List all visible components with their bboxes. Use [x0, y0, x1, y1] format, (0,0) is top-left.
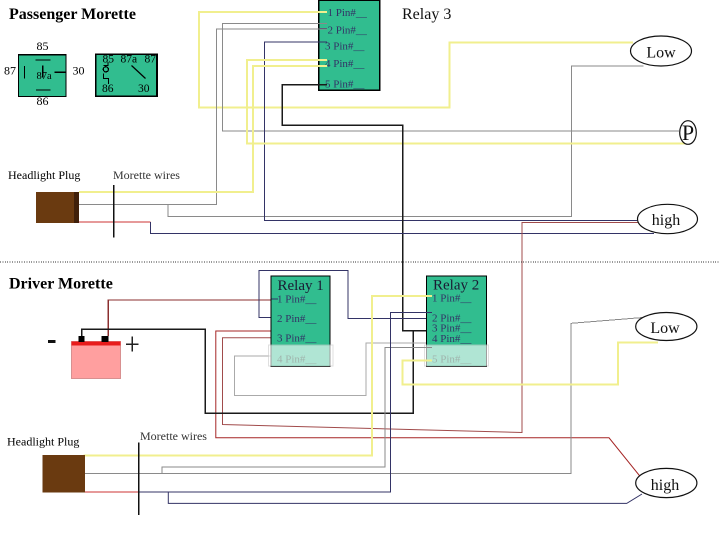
svg-text:30: 30: [138, 83, 150, 95]
wire red plug2: [84, 491, 138, 493]
label Headlight Plug bottom: [7, 435, 79, 449]
wire dark red battery to relay1 pin1: [108, 300, 276, 336]
label Morette wires bottom: [140, 429, 207, 443]
wire yellow relay3 pin1 to Low: [199, 12, 633, 108]
svg-text:85: 85: [37, 39, 49, 53]
relay pinout icon K2: [96, 54, 157, 97]
wire gray relay3 pin2 to P: [223, 24, 680, 132]
title Driver Morette: [9, 276, 113, 293]
svg-text:86: 86: [37, 94, 49, 108]
wire navy relay3 pin3 to high: [265, 42, 638, 221]
svg-text:1 Pin#__: 1 Pin#__: [432, 293, 472, 305]
relay U3 box: [319, 0, 380, 91]
label Morette wires top: [113, 168, 180, 182]
morette tick line top: [113, 185, 115, 238]
svg-text:2 Pin#__: 2 Pin#__: [277, 313, 317, 325]
relay U2 box: [427, 276, 487, 366]
svg-text:3 Pin#__: 3 Pin#__: [277, 333, 317, 345]
wire navy relay1 pin2 to relay2 pin2: [259, 271, 432, 319]
wire red plug1: [78, 221, 151, 223]
svg-text:87: 87: [4, 64, 16, 78]
wire navy junction to high bottom: [168, 492, 642, 504]
wire red relay1 pin3 to high bottom: [216, 331, 643, 480]
svg-text:86: 86: [102, 83, 114, 95]
ellipse Low top: [631, 36, 692, 66]
wire gray relay3 pin2 to headlight plug: [79, 29, 327, 205]
svg-text:Driver Morette: Driver Morette: [9, 276, 113, 293]
relay U1 faded bottom overlay: [269, 345, 334, 366]
label Relay 3: [402, 6, 451, 23]
wire silver relay1 pin4 to relay2 pin4: [235, 343, 432, 396]
morette tick line bottom: [138, 443, 140, 516]
wire dark red relay1 pin3 to high top: [223, 223, 639, 433]
wire gray plug2 to Low bottom: [85, 318, 643, 474]
svg-text:Relay 2: Relay 2: [433, 278, 479, 294]
svg-text:4 Pin#__: 4 Pin#__: [325, 58, 365, 70]
svg-text:P: P: [682, 120, 694, 145]
label Headlight Plug top: [8, 168, 80, 182]
wire yellow relay2 pin5 to Low bottom: [403, 342, 658, 384]
svg-text:Low: Low: [646, 45, 676, 62]
wire black relay3 pin5 to relay2 pin3: [282, 85, 432, 331]
svg-text:4 Pin#__: 4 Pin#__: [432, 333, 472, 345]
wire yellow plug2 to relay2 pin1: [84, 296, 433, 456]
svg-text:Headlight Plug: Headlight Plug: [8, 168, 80, 182]
svg-text:3 Pin#__: 3 Pin#__: [325, 41, 365, 53]
svg-text:87a: 87a: [37, 71, 53, 82]
wire yellow relay3 pin4 under P: [247, 60, 689, 144]
svg-text:Passenger Morette: Passenger Morette: [9, 6, 136, 23]
svg-text:87: 87: [145, 54, 157, 66]
svg-text:Headlight Plug: Headlight Plug: [7, 435, 79, 449]
battery BT1: [48, 336, 138, 378]
wire navy plug2 to relay2 pin2: [139, 313, 433, 492]
headlight plug 1: [36, 192, 79, 223]
svg-text:5 Pin#__: 5 Pin#__: [432, 354, 472, 366]
svg-text:Morette wires: Morette wires: [113, 168, 180, 182]
wire yellow relay3 pin4 to plug: [79, 66, 327, 192]
svg-text:Relay 1: Relay 1: [278, 278, 324, 294]
wire black battery to relay2 pin3 riser: [82, 329, 414, 413]
headlight plug 2: [43, 455, 86, 493]
svg-text:2 Pin#__: 2 Pin#__: [328, 25, 368, 37]
wire gray junction to Low bottom: [168, 66, 644, 217]
svg-text:high: high: [652, 212, 680, 229]
svg-text:1 Pin#__: 1 Pin#__: [328, 7, 368, 19]
node P: [680, 120, 697, 145]
ellipse high top: [638, 204, 698, 233]
svg-text:Relay 3: Relay 3: [402, 6, 451, 23]
title Passenger Morette: [9, 6, 136, 23]
svg-text:1 Pin#__: 1 Pin#__: [277, 294, 317, 306]
relay U2 faded bottom overlay: [424, 345, 488, 366]
dotted divider: [0, 261, 720, 263]
ellipse high bottom: [636, 468, 697, 497]
svg-text:Low: Low: [650, 320, 680, 337]
svg-text:Morette wires: Morette wires: [140, 429, 207, 443]
svg-text:87a: 87a: [121, 54, 138, 66]
svg-text:high: high: [651, 477, 679, 494]
wire navy plug1 under high: [151, 222, 655, 234]
svg-text:4 Pin#__: 4 Pin#__: [277, 354, 317, 366]
ellipse Low bottom: [636, 313, 697, 341]
svg-text:5 Pin#__: 5 Pin#__: [325, 79, 365, 91]
wire gray relay2 pin5 to plug2 junction: [162, 348, 432, 474]
relay pinout icon K1: [4, 39, 85, 108]
svg-text:30: 30: [73, 64, 85, 78]
relay U1 box: [271, 276, 330, 366]
